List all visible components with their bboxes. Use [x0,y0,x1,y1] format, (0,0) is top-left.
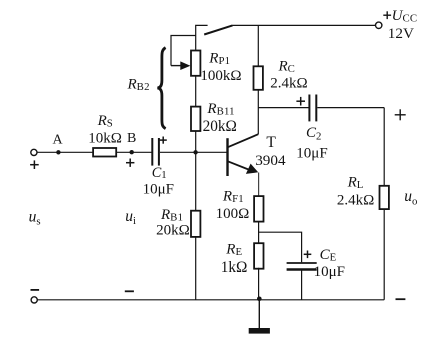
terminal: input negative (bottom-left) [31,297,37,303]
label: + polarity at node B [126,159,134,167]
resistor RC 2.4k [254,59,308,92]
capacitor C2 10uF (output coupling) [296,95,327,162]
svg-text:us: us [29,209,41,228]
transistor T 3904: base bar [228,134,286,176]
svg-text:3904: 3904 [255,152,286,169]
wire: collector node to capacitor C2 [258,107,308,109]
wire: RB11 to base junction [195,131,197,152]
wire: RP1 wiper connection up to top of RP1 [171,36,196,66]
wire: riser from RP1 top to supply rail with stub [196,25,208,50]
wire: right branch vertical top (C2 to RL) [383,108,385,186]
potentiometer RP1 100k with wiper arrow [171,51,242,84]
label: output + polarity [395,109,406,120]
svg-text:20kΩ: 20kΩ [203,118,237,135]
capacitor CE 10uF (bypass) [287,247,345,280]
svg-text:100kΩ: 100kΩ [200,68,241,84]
switch blade (supply switch) [204,25,232,34]
svg-text:RC: RC [278,59,296,76]
ground [249,299,270,334]
wire: RS to capacitor C1 through node B [116,151,151,153]
svg-text:CE: CE [320,247,337,264]
svg-text:A: A [53,133,64,148]
svg-text:12V: 12V [388,25,414,42]
svg-text:RP1: RP1 [208,51,230,68]
wire: RF1 to RE through CE junction [258,221,260,243]
wire: input terminal to resistor RS through node A [37,151,92,153]
wire: bottom rail [37,299,384,301]
resistor RB11 20k [191,101,237,135]
terminal: input positive (top-left) [31,149,37,155]
svg-text:20kΩ: 20kΩ [156,222,190,238]
svg-text:UCC: UCC [392,8,418,25]
wire: C1 to transistor base through bias junction [160,151,227,153]
svg-text:B: B [127,131,136,146]
svg-text:RB1: RB1 [160,207,183,224]
svg-text:RL: RL [347,175,364,192]
node: ground junction on bottom rail [257,297,262,302]
wire: C2 to load branch [317,107,384,109]
wire: RP1 to RB11 [195,76,197,106]
svg-text:RE: RE [225,242,242,259]
label: - polarity at source [31,289,40,291]
svg-text:10kΩ: 10kΩ [88,131,122,147]
label: + polarity at CE [304,251,312,259]
terminal: +UCC 12V supply [376,8,418,42]
wire: base junction down to RB1 [195,152,197,210]
wire: RB1 to bottom rail [195,237,197,300]
svg-text:10μF: 10μF [314,264,345,280]
resistor RF1 100ohm (feedback) [216,189,264,223]
svg-text:RB2: RB2 [127,76,150,93]
svg-text:RS: RS [97,113,113,130]
wire: RC to collector node [257,90,259,135]
wire: supply rail down to RC [257,25,259,66]
svg-text:C1: C1 [152,165,167,181]
wire: CE to bottom rail [301,271,303,300]
label: input + polarity [30,160,39,169]
svg-text:uo: uo [404,188,417,208]
resistor RL 2.4k (load) [337,175,389,209]
label: - polarity at ui [125,290,134,292]
capacitor C1 10uF (coupling) [143,138,174,198]
svg-text:RF1: RF1 [222,189,244,206]
resistor RB1 20k [156,207,200,238]
brace grouping RB2 = RP1 + RB11 [127,48,166,129]
label: output - polarity [396,298,406,300]
svg-text:2.4kΩ: 2.4kΩ [270,75,307,91]
svg-text:C2: C2 [306,125,322,143]
resistor RS 10k [88,113,122,157]
node B [127,131,136,154]
label: + polarity at C1 [160,137,167,144]
node A [53,133,64,155]
wire: RL to bottom rail [383,209,385,300]
wire: emitter to RF1 [258,173,260,197]
node: bias divider / base junction [193,150,197,154]
svg-text:1kΩ: 1kΩ [221,259,248,276]
svg-text:RB11: RB11 [206,101,234,118]
svg-text:2.4kΩ: 2.4kΩ [337,193,374,209]
wire: RE to bottom rail [258,268,260,300]
svg-text:10μF: 10μF [296,145,327,161]
svg-text:100Ω: 100Ω [216,206,250,222]
resistor RE 1k (emitter) [221,242,264,277]
svg-text:10μF: 10μF [143,182,174,198]
svg-text:T: T [266,134,276,151]
label: + polarity at C2 [296,97,305,106]
svg-text:ui: ui [125,208,136,227]
wire: top supply rail to UCC terminal [232,24,375,26]
transistor emitter lead with arrow [228,161,252,170]
wire: junction to CE branch [259,232,302,262]
transistor collector lead [228,134,259,147]
